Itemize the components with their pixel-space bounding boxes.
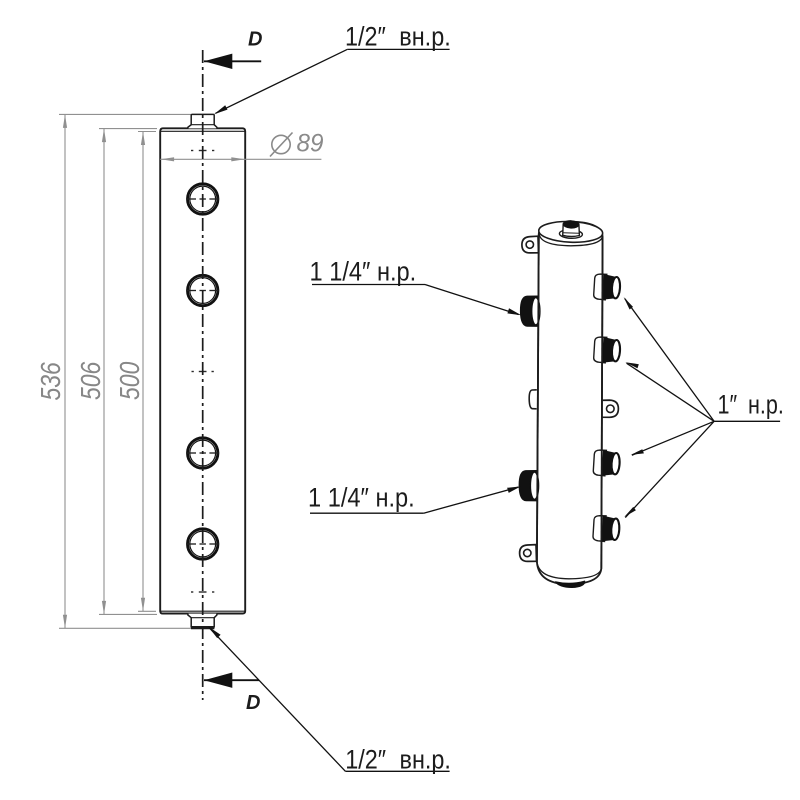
ext line 506 top	[99, 128, 157, 130]
arrows 506	[102, 129, 106, 143]
ext line 500 top	[138, 131, 156, 133]
vessel body front	[160, 128, 245, 613]
dim arrowheads gray	[63, 114, 145, 628]
ext line 536 bottom	[59, 627, 191, 629]
top fitting front	[188, 114, 217, 128]
svg-text:1″ н.р.: 1″ н.р.	[718, 390, 784, 420]
left port A (1 1/4")	[520, 296, 540, 327]
svg-text:1/2″ вн.р.: 1/2″ вн.р.	[345, 745, 451, 775]
leader 1 1/4 top	[312, 285, 521, 316]
top rim arc	[539, 234, 602, 246]
vessel body 3d	[537, 222, 603, 585]
dim line 506	[103, 129, 105, 615]
body inner line bottom	[160, 610, 245, 612]
svg-text:500: 500	[115, 361, 146, 400]
section arrow D top	[204, 54, 261, 69]
svg-text:1/2″ вн.р.: 1/2″ вн.р.	[345, 22, 451, 52]
leader top 1/2	[214, 49, 450, 114]
leader 1 1/4 bottom	[310, 486, 521, 513]
svg-text:536: 536	[36, 362, 67, 401]
leader bottom 1/2	[208, 626, 450, 771]
arrows 536	[63, 114, 67, 128]
top ellipse	[538, 220, 603, 243]
bottom fitting crescent	[556, 581, 585, 587]
left port B (1 1/4")	[519, 470, 539, 501]
centerline vertical	[202, 50, 204, 700]
svg-text:1 1/4″ н.р.: 1 1/4″ н.р.	[310, 257, 417, 287]
body edge lines redrawn	[537, 234, 539, 562]
tab mid-left	[529, 390, 537, 409]
port circle 4	[187, 529, 219, 559]
leaders 1 n.p.	[625, 299, 780, 518]
arrows 500	[141, 132, 145, 146]
svg-text:506: 506	[76, 361, 107, 400]
bottom rim arc	[537, 562, 601, 579]
dim line 500	[142, 132, 144, 612]
center mark y371	[192, 371, 214, 373]
bottom fitting front	[188, 614, 217, 627]
svg-text:D: D	[248, 29, 262, 51]
ext line 536 top	[59, 113, 191, 115]
svg-text:1 1/4″ н.р.: 1 1/4″ н.р.	[308, 483, 415, 513]
lug top-left	[522, 236, 539, 253]
right port 2 (1")	[593, 336, 620, 363]
port circle 3	[187, 438, 219, 468]
dim line diameter 89 (over body)	[160, 158, 321, 160]
ext line 500 bottom	[138, 610, 156, 612]
dimension extension lines (gray)	[59, 114, 191, 628]
ext line 506 bottom	[99, 613, 157, 615]
svg-text:89: 89	[297, 130, 324, 157]
right port 3 (1")	[593, 449, 620, 476]
right port 4 (1")	[593, 515, 620, 542]
dim line 536	[64, 114, 66, 628]
port circle 2	[187, 275, 219, 305]
right port 1 (1")	[593, 273, 620, 300]
svg-text:D: D	[246, 692, 260, 714]
port circle 1	[187, 184, 219, 214]
body inner line top	[160, 130, 245, 132]
center mark y592	[191, 591, 214, 593]
top fitting 3d	[559, 220, 582, 239]
lug mid-right	[600, 400, 618, 417]
section arrow D bottom	[204, 673, 259, 688]
center mark y150	[191, 150, 214, 152]
diameter symbol	[270, 133, 293, 157]
lug bottom-left	[520, 545, 537, 562]
